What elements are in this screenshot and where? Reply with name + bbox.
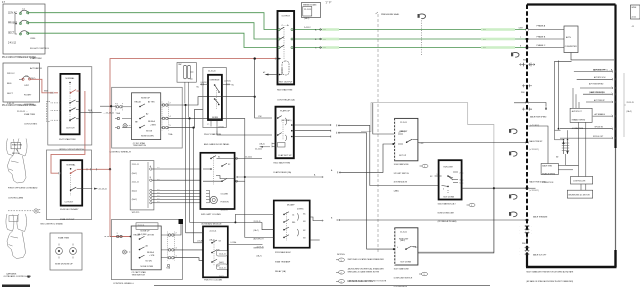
svg-text:SPOLE OUT: SPOLE OUT <box>593 136 604 138</box>
S4 right pin <box>222 83 231 85</box>
breaker CB4 (stby stab trim) <box>22 76 30 80</box>
capt wheel trim switch S5 inner box <box>131 226 161 270</box>
svg-text:→ 22-13-11: → 22-13-11 <box>103 112 115 114</box>
wire red main feed to relay <box>51 91 85 173</box>
S1 red contact <box>70 92 72 94</box>
up limit out wire <box>418 142 526 144</box>
svg-text:5 NC: 5 NC <box>420 143 425 145</box>
small ref boxes bottom left of mc amp <box>217 251 228 257</box>
breaker CB3 <box>20 31 28 35</box>
S1 contact 2 <box>69 102 71 104</box>
not down out wire up to run-limit net <box>418 188 494 253</box>
svg-text:NOSE DOWN: NOSE DOWN <box>141 266 154 268</box>
converter output wire <box>571 53 614 60</box>
footer block <box>2 285 30 287</box>
svg-text:S2: S2 <box>228 164 230 166</box>
svg-text:4: 4 <box>176 248 177 250</box>
thumb switch left <box>56 248 63 255</box>
svg-text:NORM: NORM <box>212 117 218 119</box>
S1 common dot <box>69 82 71 84</box>
svg-text:C2 CAPT STABTRIM SWITCH: C2 CAPT STABTRIM SWITCH <box>132 271 147 276</box>
svg-text:3: 3 <box>531 109 532 111</box>
thumb switch right <box>70 248 77 255</box>
fcc bracket right <box>624 73 626 137</box>
S1 gang dashed <box>69 84 71 122</box>
wheel R pin 3 in <box>100 105 116 107</box>
svg-text:UP LIMIT: UP LIMIT <box>400 131 409 133</box>
mach trim enable box <box>541 164 558 175</box>
svg-text:22-13-11: 22-13-11 <box>245 156 252 158</box>
svg-text:1: 1 <box>424 166 425 168</box>
ap feeder verticals <box>555 61 572 131</box>
svg-text:C2 F/O STABTRIM SWITCH: C2 F/O STABTRIM SWITCH <box>133 142 147 147</box>
P8 aisle stand module outer <box>203 68 226 128</box>
wire wheelR pin4 <box>168 117 245 119</box>
wire S4 out to junction <box>214 96 216 98</box>
first officers control arm sketch <box>6 139 27 184</box>
svg-text:NO DN: NO DN <box>146 260 153 262</box>
wires into mc amp <box>235 214 273 222</box>
captains control arm sketch <box>6 214 27 259</box>
svg-text:2: 2 <box>341 272 342 274</box>
svg-text:S4: S4 <box>219 241 221 243</box>
relay coil K1 <box>282 61 289 75</box>
droppers to lower modules <box>186 105 194 243</box>
svg-text:SPOLE IN: SPOLE IN <box>595 127 604 129</box>
wire S4 bottom to flap relay coil <box>217 131 272 136</box>
override switch S4 thick box <box>208 75 222 120</box>
boundary connector pins left column <box>522 63 532 111</box>
breaker CB1 <box>20 10 28 14</box>
wire wheel L pin2 up <box>174 224 181 235</box>
mach trim down wire to connector <box>495 187 526 189</box>
svg-text:2: 2 <box>170 103 171 105</box>
wire red lower module output <box>82 59 276 170</box>
wire stub at connector <box>514 102 526 104</box>
svg-text:NOT UP: NOT UP <box>399 155 407 157</box>
svg-text:RUN LIMIT: RUN LIMIT <box>399 239 409 241</box>
svg-text:3: 3 <box>117 103 118 105</box>
wire phase A green <box>29 13 277 30</box>
svg-text:M2: M2 <box>556 157 558 159</box>
relay coil pin X1 (red feed) <box>278 58 281 60</box>
mc amp outputs <box>310 217 324 221</box>
wire column module output step <box>216 176 235 179</box>
svg-text:3: 3 <box>341 281 342 283</box>
lower connector pins <box>525 225 530 255</box>
f/o column outboard module thick box <box>203 226 228 277</box>
wire mach trim arm long <box>338 219 527 221</box>
breaker CB2 <box>20 20 28 24</box>
S2 gang dashed <box>70 175 72 196</box>
R2 output wires <box>294 124 331 126</box>
wire local right <box>228 244 263 246</box>
pin ticks on red output <box>87 168 97 170</box>
S6 contacts <box>210 158 212 160</box>
zone boundary stepped outline <box>361 103 494 252</box>
R2 pins left <box>277 117 279 119</box>
wire wheelR pin5 <box>168 109 203 127</box>
S2 contact 2 <box>70 189 72 191</box>
svg-text:1: 1 <box>176 255 177 257</box>
footer rule <box>154 285 490 287</box>
control wheel R outer box <box>112 87 183 148</box>
brushless dc motor box <box>567 190 592 198</box>
pressure-seal feedthrough on green wires <box>418 14 426 19</box>
R2 coil spare pins <box>272 144 276 147</box>
svg-text:W58: W58 <box>523 60 527 62</box>
svg-text:22-15-41: 22-15-41 <box>208 71 216 73</box>
svg-text:BRUSHLESS DC MOTOR: BRUSHLESS DC MOTOR <box>569 194 591 196</box>
svg-text:W58: W58 <box>522 243 526 245</box>
controller box <box>571 177 593 185</box>
svg-text:NOT DOWN: NOT DOWN <box>401 262 412 264</box>
svg-text:OVERRIDE: OVERRIDE <box>210 79 221 81</box>
S2 pin in <box>59 172 61 174</box>
circuit breaker panel P6-2 (DC) box <box>3 63 40 102</box>
svg-text:1: 1 <box>341 260 342 262</box>
svg-text:“J” “F”: “J” “F” <box>325 1 332 4</box>
mc amp relay R3 thick box <box>274 201 310 248</box>
svg-text:8: 8 <box>520 45 521 47</box>
svg-text:2: 2 <box>176 233 177 235</box>
svg-text:W25 P25: W25 P25 <box>132 212 139 214</box>
svg-text:1: 1 <box>117 233 118 235</box>
wires dashed to spare bracket <box>50 103 60 120</box>
capt column grip module <box>130 161 154 210</box>
wires down into ap enable box <box>573 88 579 108</box>
svg-text:C4: C4 <box>292 215 294 217</box>
svg-text:HOT OUTPUT: HOT OUTPUT <box>279 82 293 84</box>
svg-text:NOSE DOWN: NOSE DOWN <box>141 136 154 138</box>
grip wires to column module <box>152 168 200 170</box>
flap relay R2 thick box <box>276 107 294 159</box>
wheel L pin 1 in <box>105 236 111 238</box>
svg-text:7: 7 <box>520 37 521 39</box>
ap wire rows to boundary connector <box>574 71 612 73</box>
ref tag box lower <box>136 223 158 230</box>
breaker feed wire <box>15 14 17 35</box>
wire phase B green <box>29 23 277 39</box>
S4 left pin <box>200 83 208 85</box>
junction dot on red power wire <box>254 57 256 59</box>
black junction block <box>179 219 184 224</box>
junction dots on wheel wires <box>184 104 186 106</box>
F/O wheel trim switch S3 inner box <box>132 93 161 140</box>
svg-text:4: 4 <box>397 247 398 249</box>
main cutout switch module outer case <box>47 150 92 220</box>
RC filter module <box>177 63 196 83</box>
svg-text:(OVER): (OVER) <box>297 209 304 211</box>
autopilot enable speed direction box <box>570 108 592 122</box>
altn converter box <box>564 26 578 53</box>
S2 red contact <box>70 172 72 174</box>
wire phase C green (right of relay) <box>294 47 526 49</box>
wire from flap relay out A <box>338 125 439 185</box>
pin on red wire <box>51 92 53 94</box>
wire phase A green (right of relay) <box>294 29 526 31</box>
svg-text:CUTOUT: CUTOUT <box>65 202 74 204</box>
relay contacts phase A <box>278 29 280 31</box>
not down limit switch S9 box <box>395 228 418 265</box>
svg-text:1: 1 <box>531 64 532 66</box>
stab trim switch label tag <box>11 143 21 149</box>
boundary connector pin ticks right side <box>613 71 616 140</box>
mach trim arm label <box>526 219 529 221</box>
junction dot red node <box>109 168 111 170</box>
svg-text:NOSE DN NOSE UP: NOSE DN NOSE UP <box>55 264 73 266</box>
S1 contact 3 <box>69 110 71 112</box>
svg-text:4: 4 <box>443 188 444 190</box>
droppers bends to right <box>190 221 263 223</box>
coil return wire w/ arrow <box>269 74 278 76</box>
wire wheelR pin2 <box>168 97 215 105</box>
svg-text:1: 1 <box>424 274 425 276</box>
wire red branch to capt wheel <box>110 169 131 236</box>
svg-text:CUTOUT: CUTOUT <box>66 128 75 130</box>
up limit switch S7 box <box>395 118 418 160</box>
wheel lamp <box>123 124 127 128</box>
spare bracket <box>47 102 50 122</box>
pin markers on green wires <box>320 29 322 49</box>
wire from flap relay out B <box>338 133 395 249</box>
svg-text:4: 4 <box>399 132 400 134</box>
svg-text:4: 4 <box>170 116 171 118</box>
circuit breaker panel P6-2 (AC) box <box>3 4 45 54</box>
grip pins A B <box>150 168 152 170</box>
trim actuator arrows <box>564 141 568 154</box>
mach trim up fcc pin <box>526 102 529 104</box>
svg-text:NO DN: NO DN <box>146 130 153 132</box>
svg-text:(LOCK): (LOCK) <box>225 81 231 83</box>
column position sensor <box>210 196 217 203</box>
svg-text:S47: S47 <box>217 266 220 268</box>
wire left half autopilot A <box>236 176 323 178</box>
wires mach trim enable <box>529 126 549 164</box>
relay contacts phase B <box>278 38 280 40</box>
wire wheel L pin1 <box>174 258 203 261</box>
svg-text:22-13-11: 22-13-11 <box>99 189 108 191</box>
wire autopilot A ref <box>339 144 395 172</box>
svg-text:CONTROL WHEEL-L: CONTROL WHEEL-L <box>113 283 135 285</box>
svg-text:CONTROL WHEEL-R: CONTROL WHEEL-R <box>110 151 132 153</box>
svg-text:NOSE UP: NOSE UP <box>141 97 151 99</box>
svg-text:+ MES: + MES <box>150 125 156 127</box>
cable W58 marker <box>520 64 536 66</box>
stby cutout switch S1 thick box <box>60 74 79 134</box>
svg-text:RUN LIMIT: RUN LIMIT <box>444 167 454 169</box>
wire wheel L pin4 <box>174 249 203 251</box>
wire S1 aux out <box>80 111 102 113</box>
wheel L lamp <box>123 250 127 254</box>
svg-text:5: 5 <box>170 125 171 127</box>
capt column outboard module thick box <box>200 153 234 209</box>
stab trim thumb switch detail box <box>50 233 82 270</box>
wire stby power (red) from CB4 <box>31 79 53 93</box>
wire phase C green <box>29 33 277 47</box>
S1 contact 4 <box>69 119 71 121</box>
svg-text:REL: REL <box>292 222 296 224</box>
wires connector to converter <box>529 30 565 48</box>
wire mach trim up branch <box>373 103 395 134</box>
module outputs right <box>235 157 262 159</box>
run limit switch S8 thick box <box>439 160 462 199</box>
svg-text:W58: W58 <box>88 110 92 112</box>
wire phase B green (right of relay) <box>294 38 526 40</box>
relay coil pin X2 <box>279 68 282 75</box>
svg-text:+ STB: + STB <box>149 255 155 257</box>
wires controller-motor <box>579 122 586 190</box>
control wheel L outer box <box>111 220 182 280</box>
wheel R out pins 2 4 5 <box>162 104 168 129</box>
S2 common dot <box>70 168 72 170</box>
svg-text:CONTROLLER: CONTROLLER <box>573 180 586 182</box>
stabilizer boundary thick frame <box>527 3 616 5</box>
svg-text:C837: C837 <box>519 28 523 30</box>
relay contacts phase C <box>278 47 280 49</box>
small legend box far top right <box>631 5 640 19</box>
relay gang dashed link <box>283 27 285 60</box>
svg-text:(1710): (1710) <box>219 127 225 129</box>
S4 bottom pins <box>211 121 217 131</box>
svg-text:W58: W58 <box>521 92 525 94</box>
svg-text:NOT DOWN: NOT DOWN <box>444 196 455 198</box>
wire label highlights left of relay <box>322 28 515 49</box>
R2 internal links <box>285 118 287 141</box>
dashed link to detail <box>8 210 33 212</box>
svg-text:NOTES:: NOTES: <box>337 254 346 256</box>
svg-text:22-13-11 →: 22-13-11 → <box>17 111 28 113</box>
stby cutout switch module outer case <box>48 67 92 145</box>
wiring diagram legend box (top right) <box>302 3 321 18</box>
svg-text:(LOCK): (LOCK) <box>201 82 207 84</box>
svg-text:NOSE UP: NOSE UP <box>141 230 151 232</box>
svg-text:C/W: C/W <box>258 116 262 118</box>
run limit out wire w/ junction <box>462 187 526 189</box>
S2 aux wire w/ arrow <box>82 188 92 190</box>
filter feeders <box>185 82 189 117</box>
mach trim down label <box>526 187 529 189</box>
svg-text:1: 1 <box>471 205 472 207</box>
wire dc feed down to flap relay <box>255 59 272 118</box>
pin on red at relay <box>274 58 276 60</box>
svg-text:1: 1 <box>437 174 438 176</box>
connector eyelet <box>34 209 38 213</box>
stab trim control relay R1 (tall thick box) <box>278 11 295 84</box>
mach trim up label <box>526 142 529 144</box>
svg-text:22-13-11: 22-13-11 <box>255 149 262 151</box>
wheel L out pins <box>168 234 174 259</box>
main cutout switch S2 thick box <box>61 160 82 205</box>
clamp on boundary <box>511 52 519 57</box>
